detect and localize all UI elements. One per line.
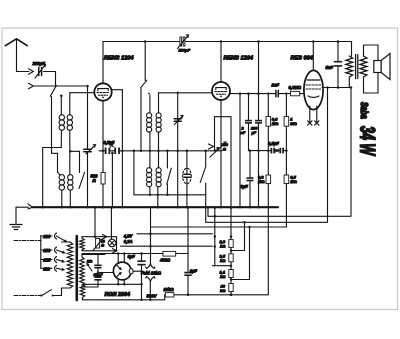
- capacitor 0.5uF c1: [271, 148, 273, 154]
- wire row B: [249, 150, 271, 152]
- resistor 10k chain: [229, 284, 233, 292]
- wire V1 right down: [121, 90, 123, 208]
- switch S4b: [167, 168, 172, 184]
- lamp arrows: [103, 235, 107, 239]
- tap bracket: [40, 236, 42, 269]
- svg-text:125: 125: [43, 258, 51, 263]
- junction: [157, 206, 160, 209]
- svg-text:kΩ: kΩ: [220, 288, 226, 293]
- wire y216: [208, 215, 351, 217]
- coil L3a loops: [147, 113, 152, 118]
- antenna: [5, 39, 27, 46]
- wire ground stub: [16, 206, 29, 208]
- svg-text:4,5V: 4,5V: [123, 234, 134, 239]
- capacitor 200pF trimmer: [38, 68, 40, 76]
- wire gang bottom: [186, 184, 188, 207]
- wire box left: [133, 151, 135, 195]
- resistor 2.2k: [229, 240, 233, 248]
- svg-text:220: 220: [42, 234, 51, 239]
- power switch: [14, 295, 40, 297]
- junction bus: [41, 206, 44, 209]
- capacitor 100pF trimmer: [180, 37, 182, 46]
- wire chain bottom: [230, 292, 232, 295]
- junction: [176, 92, 179, 95]
- wire x150 bus drop: [150, 207, 152, 263]
- wire row B right: [284, 150, 286, 152]
- coil L1a: [59, 115, 64, 120]
- wire y222: [206, 221, 328, 223]
- wire x167 down: [166, 151, 168, 168]
- junction: [186, 194, 189, 197]
- coil L2b: [68, 175, 73, 180]
- transformer core: [76, 236, 79, 300]
- capacitor 5nF: [334, 61, 342, 63]
- wire field top: [150, 262, 152, 264]
- wire L1b bottom: [69, 130, 71, 175]
- wire cath junction: [140, 270, 143, 273]
- wire 5nF top: [337, 42, 339, 61]
- wire primary bottom: [348, 77, 350, 88]
- mains selector dash-dot: [14, 240, 41, 242]
- junction top: [144, 40, 147, 43]
- svg-text:MΩ: MΩ: [272, 121, 279, 126]
- capacitor 6uF: [187, 207, 189, 272]
- wire hv mid tap: [98, 272, 114, 274]
- resistor 10k psu: [164, 287, 175, 297]
- svg-text:RGN 2004: RGN 2004: [105, 292, 130, 298]
- resistor 0.5M: [284, 175, 289, 184]
- wire RGN heater pins: [117, 280, 119, 285]
- wire L1b top to tube V1: [69, 93, 71, 115]
- svg-text:MΩ: MΩ: [290, 179, 297, 184]
- svg-text:Ω: Ω: [92, 178, 97, 183]
- wire secondary bottom: [363, 77, 365, 93]
- wire 500ohm to bus: [102, 184, 104, 207]
- wire L1a bottom: [60, 130, 62, 147]
- wire field bottom: [149, 281, 151, 300]
- svg-text:2µF: 2µF: [240, 184, 249, 189]
- wire antenna to connector: [17, 71, 30, 73]
- wire chain 2: [230, 262, 232, 270]
- wire V3 heater pins: [309, 106, 311, 122]
- capacitor hv-b: [94, 276, 101, 278]
- wire branch1: [231, 250, 245, 252]
- wire x286 drop: [285, 94, 287, 117]
- coil L3b loops: [156, 113, 161, 118]
- switch S1 antenna: [50, 85, 56, 96]
- junction rowA: [102, 150, 105, 153]
- output transformer core: [355, 55, 357, 79]
- svg-text:8µF: 8µF: [128, 254, 136, 259]
- tube RGN2004: [113, 262, 131, 280]
- wire cap to switch node: [44, 71, 56, 73]
- wire gang top: [186, 151, 188, 168]
- wire bottom rail: [83, 299, 165, 301]
- dial lamp: [108, 239, 116, 247]
- svg-text:110: 110: [43, 266, 50, 271]
- svg-text:0,5µF: 0,5µF: [268, 141, 279, 146]
- svg-text:1nF: 1nF: [272, 83, 280, 88]
- arrow 6ohm: [87, 264, 92, 272]
- coil L2a: [59, 175, 64, 180]
- wire chain 1: [230, 248, 232, 254]
- wire x286 low: [285, 184, 287, 227]
- svg-text:5nF: 5nF: [326, 65, 334, 70]
- speaker: [377, 45, 379, 61]
- wire lamp drop 2: [110, 207, 112, 239]
- junction rowB: [249, 149, 252, 152]
- junction rail: [187, 294, 190, 297]
- resistor 1.1k: [229, 270, 233, 278]
- wire x177 full: [177, 93, 179, 207]
- wire row B mid: [275, 150, 279, 152]
- output transformer primary: [346, 56, 353, 77]
- HV loop top: [82, 254, 105, 256]
- svg-text:nF: nF: [241, 131, 246, 135]
- wire x327 long: [327, 88, 329, 223]
- junction chain top: [230, 235, 233, 238]
- wire top bus: [103, 41, 352, 43]
- resistor 2.5k: [229, 254, 233, 262]
- wire row A mid1: [110, 150, 114, 152]
- node grid top: [60, 95, 63, 98]
- wire y234: [137, 233, 213, 235]
- capacitor 0.5uF c2: [279, 148, 281, 154]
- svg-text:Ω: Ω: [100, 244, 104, 248]
- wire S4 bottom: [205, 183, 207, 222]
- capacitor 2nF: [248, 94, 250, 120]
- svg-text:MΩ: MΩ: [290, 121, 297, 126]
- wire y266 to chain: [212, 265, 231, 267]
- resistor 500ohm: [101, 173, 105, 185]
- wire L3b top: [158, 93, 160, 113]
- svg-text:Saba: Saba: [359, 102, 371, 119]
- tap arrows: [57, 236, 67, 242]
- wire RGN cathode: [133, 270, 142, 272]
- wire x286 mid: [285, 126, 287, 175]
- choke field top: [147, 263, 155, 268]
- svg-text:34 W: 34 W: [356, 126, 380, 156]
- wire rail step: [164, 295, 166, 300]
- wire x268 drop: [267, 94, 269, 175]
- wire pickup row: [33, 85, 87, 87]
- tube V1 RENS1204: [94, 83, 111, 100]
- wire primary top: [62, 241, 71, 243]
- wire switch drop: [144, 42, 146, 81]
- wire B+ line: [82, 253, 163, 255]
- capacitor 100pF2: [258, 42, 260, 120]
- ground symbol: [10, 224, 22, 226]
- wire lamp drop: [94, 207, 96, 237]
- wire ground bus: [33, 206, 278, 208]
- svg-text:0,2A: 0,2A: [124, 239, 133, 244]
- capacitor trimmer padding: [174, 118, 181, 120]
- svg-text:580V: 580V: [147, 294, 158, 299]
- variable capacitor gang: [183, 168, 192, 184]
- junction: [220, 206, 223, 209]
- capacitor 0.5uF b: [114, 148, 116, 155]
- svg-text:200pF: 200pF: [32, 61, 46, 66]
- svg-text:kΩ: kΩ: [220, 258, 226, 263]
- filament winding: [80, 284, 85, 297]
- wire filament top: [83, 283, 142, 285]
- wire V1 anode right: [112, 89, 123, 91]
- svg-text:6µF: 6µF: [190, 268, 198, 273]
- transformer primary: [67, 242, 73, 288]
- svg-text:10kΩ: 10kΩ: [164, 287, 175, 292]
- wire 5nF bottom: [337, 67, 339, 88]
- wire mid coil left top: [149, 95, 151, 113]
- capacitor trimmer C-ant: [84, 148, 91, 150]
- wire resistor to V3: [300, 93, 305, 95]
- wire x231 upper: [230, 117, 232, 240]
- wire S4 top: [205, 151, 207, 167]
- wire chain 3: [230, 278, 232, 284]
- wire L2a bottom: [61, 190, 63, 207]
- wire row A left: [99, 150, 105, 152]
- lamp loop: [82, 236, 117, 238]
- switch S4: [200, 167, 205, 183]
- wire L3 mid-right: [158, 132, 160, 168]
- svg-text:Feld 10kΩ: Feld 10kΩ: [141, 271, 162, 276]
- resistor 1M: [284, 117, 289, 127]
- svg-text:µF: µF: [251, 131, 257, 135]
- wire x87 upper: [87, 86, 89, 148]
- wire L4b bottom: [157, 187, 159, 208]
- svg-text:0,3MΩ: 0,3MΩ: [289, 85, 302, 90]
- wire V2 cath struct: [215, 116, 232, 118]
- svg-text:100pF: 100pF: [179, 48, 191, 53]
- resistor 480ohm: [163, 251, 176, 256]
- capacitor 2uF: [249, 151, 251, 177]
- junction bus2: [102, 206, 105, 209]
- wire x240 drop: [239, 94, 241, 208]
- connector arrow pickup: [29, 83, 34, 88]
- junction: [186, 206, 189, 209]
- wire RGN anode pins: [117, 254, 119, 264]
- svg-text:kΩ: kΩ: [220, 274, 226, 279]
- wire caps mid down: [111, 153, 113, 207]
- junction: [86, 85, 89, 88]
- wire secondary top: [363, 45, 365, 56]
- potentiometer 300ohm: [210, 142, 226, 157]
- wire V2 bottom: [220, 100, 222, 207]
- wire primary bottom: [62, 287, 71, 289]
- svg-text:Ω: Ω: [222, 148, 226, 152]
- wire V2 grid row: [159, 92, 213, 94]
- wire jog to S2: [71, 150, 80, 152]
- svg-text:6Ω: 6Ω: [87, 259, 93, 264]
- wire lever down: [140, 89, 142, 151]
- capacitor 1nF: [275, 90, 277, 96]
- choke field bottom: [147, 277, 155, 282]
- wire x87 lower: [87, 153, 89, 207]
- wire L3 mid-left: [149, 132, 151, 168]
- connector arrow chassis: [28, 204, 33, 209]
- wire row A right: [120, 150, 222, 152]
- wire B+ after res: [176, 253, 188, 255]
- lamp winding: [80, 238, 85, 250]
- tap cups: [55, 233, 57, 239]
- tube V3 RES664: [304, 70, 323, 109]
- switch S3 band: [141, 80, 147, 88]
- wire row bottom mid: [134, 194, 206, 196]
- junction: [220, 40, 223, 43]
- resistor 0.3M 2: [266, 175, 271, 184]
- svg-text:300: 300: [222, 143, 229, 147]
- coil L4a loops: [147, 168, 152, 173]
- wire x258 to bus: [258, 151, 260, 208]
- svg-text:RES 664: RES 664: [291, 56, 314, 62]
- wire V3 anode top: [312, 42, 314, 72]
- wire L4a bottom: [149, 187, 151, 195]
- wire V2 top: [220, 42, 222, 83]
- wire x351 long: [350, 88, 352, 217]
- svg-text:150: 150: [43, 248, 51, 253]
- wire top to primary: [351, 42, 353, 57]
- svg-text:kΩ: kΩ: [220, 244, 226, 249]
- tube V2 RENS1204: [212, 82, 230, 100]
- coil L1b: [67, 115, 72, 120]
- connector arrow antenna: [29, 69, 34, 74]
- coil L4b loops: [156, 168, 161, 173]
- svg-text:RENS 1204: RENS 1204: [104, 56, 134, 62]
- wire y227: [151, 226, 287, 228]
- wire y295 rail: [164, 294, 167, 296]
- svg-text:480Ω: 480Ω: [159, 258, 171, 263]
- svg-text:MΩ: MΩ: [258, 179, 265, 184]
- output transformer secondary: [360, 56, 367, 77]
- wire node down left: [42, 148, 44, 208]
- resistor 0.3M grid: [291, 91, 300, 95]
- capacitor 8uF a: [141, 254, 143, 261]
- wire 1nF to resistor: [279, 93, 290, 95]
- wire y246: [121, 245, 213, 247]
- capacitor 0.5uF a: [105, 148, 107, 155]
- svg-text:RENS 1204: RENS 1204: [224, 56, 254, 62]
- wire lever drop: [51, 97, 53, 154]
- wire L2b bottom: [69, 190, 71, 207]
- HV winding: [80, 257, 85, 285]
- switch S2 band: [79, 173, 85, 189]
- wire branch3: [231, 279, 250, 281]
- resistor 0.6M: [266, 117, 271, 127]
- wire x268 low: [267, 184, 269, 295]
- wire grid cap V1: [102, 42, 104, 84]
- wire V2 anode row: [230, 93, 275, 95]
- heater x marks: [308, 121, 312, 125]
- rheostat 50ohm: [96, 239, 100, 249]
- wire x214: [214, 208, 216, 266]
- wire V1 cathode down: [102, 101, 104, 173]
- capacitor hv-a: [97, 255, 99, 265]
